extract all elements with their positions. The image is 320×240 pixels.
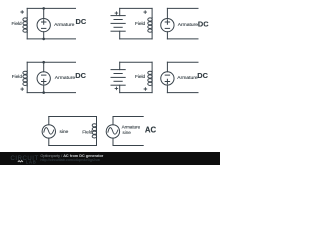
wire: circuit 4 coil top lead <box>151 62 153 71</box>
wire: circuit 5 ac source bottom stub <box>48 138 50 145</box>
polarity minus inside armature G2 <box>165 27 169 29</box>
svg-text:LAB: LAB <box>26 159 37 164</box>
wire: circuit 2 armature bottom wire <box>167 38 198 40</box>
wire: circuit 1 armature bottom stub <box>43 32 45 39</box>
polarity minus inside armature G1 <box>42 27 46 29</box>
inductor L4 Field <box>148 71 152 86</box>
wire: circuit 4 battery top stub <box>119 62 121 69</box>
wire: circuit 4 armature top stub <box>166 62 168 72</box>
wire: circuit 2 coil top lead <box>151 8 153 17</box>
inductor L3 Field <box>23 71 27 86</box>
junction dot circuit 3 top <box>42 61 45 64</box>
dc generator armature G4 (reversed) <box>161 72 174 85</box>
wire: circuit 5 field loop top wire <box>49 116 97 118</box>
wire: circuit 2 field loop top wire <box>120 7 152 9</box>
junction dot circuit 3 bottom <box>42 91 45 94</box>
dc generator armature G2 <box>161 18 174 31</box>
wire: circuit 4 armature top wire <box>167 61 198 63</box>
wire: circuit 2 field loop bottom wire <box>120 38 152 40</box>
footer watermark bar <box>0 152 220 165</box>
wire: circuit 4 battery bottom stub <box>119 85 121 92</box>
wire: circuit 2 battery bottom stub <box>119 31 121 39</box>
wire: circuit 1 bottom wire <box>27 38 75 40</box>
wire: circuit 1 armature top stub <box>43 8 45 18</box>
junction dot circuit 1 bottom <box>42 38 45 41</box>
battery V1 <box>111 16 125 32</box>
wire: circuit 2 armature top stub <box>166 8 168 18</box>
polarity plus inside armature G4 <box>165 79 169 83</box>
wire: circuit 2 coil bottom lead <box>151 33 153 39</box>
wire: circuit 4 field loop top wire <box>120 61 152 63</box>
inductor L2 Field (separately excited) <box>148 18 152 33</box>
wire: circuit 1 left side lower <box>26 33 28 39</box>
wire: circuit 4 armature bottom wire <box>167 92 198 94</box>
wire: circuit 3 armature top stub <box>43 62 45 72</box>
wire: circuit 4 field loop bottom wire <box>120 92 152 94</box>
wire: circuit 5 field loop bottom wire <box>49 145 97 147</box>
polarity minus inside armature G4 <box>165 74 169 76</box>
inductor L5 Field <box>92 123 96 138</box>
wire: circuit 5 armature top wire <box>113 116 143 118</box>
polarity mark + coil L4 bottom <box>144 88 147 91</box>
svg-text:Armature: Armature <box>55 75 76 81</box>
svg-text:Field: Field <box>135 74 146 79</box>
wire: circuit 4 armature bottom stub <box>166 85 168 93</box>
wire: circuit 2 armature bottom stub <box>166 32 168 39</box>
polarity mark + circuit 1 field top <box>21 11 24 14</box>
wire: circuit 5 coil bottom lead <box>96 138 98 145</box>
svg-text:Armature: Armature <box>122 125 141 130</box>
wire: circuit 2 armature top wire <box>167 7 198 9</box>
CircuitLab logo <box>11 156 39 164</box>
svg-text:DC: DC <box>75 71 86 80</box>
wire: circuit 5 coil top lead <box>96 117 98 124</box>
svg-text:DC: DC <box>76 17 87 26</box>
svg-text:Field: Field <box>12 21 23 26</box>
sine wave inside ac armature G5 <box>108 128 118 135</box>
inductor L1 Field (shunt field coil) <box>23 18 27 33</box>
ac source V3 sine <box>42 125 55 138</box>
wire: circuit 1 top wire <box>27 7 75 9</box>
battery V2 (reversed) <box>111 70 125 86</box>
wire: circuit 5 armature top stub <box>112 117 114 125</box>
polarity plus inside armature G2 <box>165 20 169 24</box>
svg-text:sine: sine <box>60 129 69 135</box>
svg-text:AC: AC <box>145 125 157 134</box>
svg-text:DC: DC <box>198 19 209 28</box>
wire: circuit 4 coil bottom lead <box>151 86 153 93</box>
sine wave inside ac source V3 <box>44 128 54 135</box>
wire: circuit 5 armature bottom stub <box>112 138 114 145</box>
polarity plus inside armature G1 <box>42 20 46 24</box>
polarity mark + battery V2 bottom <box>115 87 118 90</box>
wire: circuit 5 armature bottom wire <box>113 145 143 147</box>
svg-text:Field: Field <box>12 74 23 79</box>
wire: circuit 3 left side upper <box>26 62 28 71</box>
wire: circuit 3 left side lower <box>26 86 28 93</box>
polarity mark + coil L2 top <box>144 11 147 14</box>
svg-text:http://circuitlab.com/c6qm4e9g: http://circuitlab.com/c6qm4e9gr2vw <box>40 158 100 162</box>
wire: circuit 2 battery top stub <box>119 8 121 15</box>
svg-text:Field: Field <box>82 129 93 134</box>
svg-text:Armature: Armature <box>177 75 198 81</box>
wire: circuit 5 ac source top stub <box>48 117 50 125</box>
svg-text:Field: Field <box>135 21 146 26</box>
ac armature G5 sine <box>106 125 119 138</box>
wire: circuit 3 bottom wire <box>27 92 75 94</box>
svg-text:Armature: Armature <box>178 22 199 28</box>
svg-text:DC: DC <box>197 71 208 80</box>
dc generator armature G1 <box>37 18 50 31</box>
polarity mark + battery V1 top <box>115 12 118 15</box>
svg-text:sine: sine <box>123 130 132 135</box>
svg-text:Armature: Armature <box>54 22 75 28</box>
wire: circuit 3 armature bottom stub <box>43 85 45 93</box>
junction dot circuit 1 top <box>42 7 45 10</box>
dc generator armature G3 (reversed) <box>37 72 50 85</box>
polarity minus inside armature G3 <box>42 74 46 76</box>
polarity plus inside armature G3 <box>42 79 46 83</box>
polarity mark + circuit 3 field bottom <box>21 88 24 91</box>
wire: circuit 3 top wire <box>27 61 75 63</box>
wire: circuit 1 left side upper <box>26 8 28 17</box>
